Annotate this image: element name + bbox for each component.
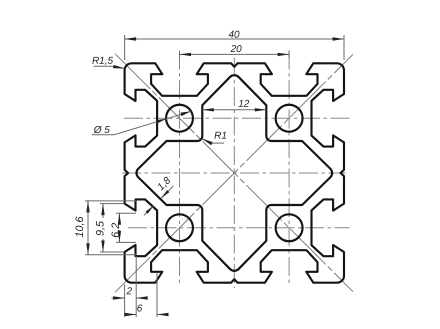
dimension 6 extension line c (156, 273, 158, 317)
dimension 10,6 extension lines (85, 200, 136, 202)
label Ø5 leader (92, 134, 115, 136)
slot axis centerline upper row (124, 117, 350, 119)
central cavity contour (136, 75, 332, 271)
horizontal centerline (122, 172, 346, 174)
slot axis centerline right column (288, 51, 290, 285)
svg-text:R1: R1 (214, 131, 227, 142)
dimension 9,5 extension lines (100, 203, 124, 205)
dimension 6,2 extension lines (116, 212, 136, 214)
svg-text:Ø 5: Ø 5 (93, 125, 111, 136)
slot axis centerline lower row (128, 227, 350, 229)
profile outer contour with 8 T-slots (125, 63, 344, 282)
hole Ø5 bottom-right (276, 214, 303, 241)
svg-text:9,5: 9,5 (94, 220, 106, 236)
dimension 12 line (202, 109, 266, 111)
svg-text:10,6: 10,6 (74, 216, 86, 237)
label R1 leader (211, 142, 224, 144)
dimension 2/6 extension line a (124, 285, 126, 318)
dimension 2/6 extension line b (135, 256, 137, 317)
dimension 40 extension line right (343, 35, 345, 60)
hole Ø5 bottom-left (166, 214, 193, 241)
dimension 20 extension ticks (179, 51, 181, 58)
dimension 6,2 line (118, 213, 120, 220)
dimension 40 line (125, 38, 344, 40)
hole Ø5 top-left (166, 105, 193, 132)
diagonal centerline TL-BR (115, 54, 353, 292)
svg-text:12: 12 (238, 99, 250, 110)
label R1,5 leader (94, 65, 112, 67)
svg-text:40: 40 (228, 30, 240, 41)
svg-text:2: 2 (126, 286, 133, 297)
dimension 6 line (126, 314, 137, 316)
svg-text:6: 6 (137, 303, 143, 314)
svg-text:R1,5: R1,5 (92, 56, 114, 67)
dimension 10,6 line (87, 201, 89, 255)
vertical centerline (233, 58, 235, 289)
dimension 9,5 line (102, 204, 104, 218)
dimension 2 line (112, 297, 125, 299)
diagonal centerline BL-TR (115, 54, 353, 292)
hole Ø5 top-right (276, 105, 303, 132)
svg-text:6,2: 6,2 (110, 223, 122, 238)
slot axis centerline left column (179, 51, 181, 285)
dimension 20 line (180, 53, 290, 55)
svg-text:20: 20 (230, 44, 243, 55)
dimension 40 extension line left (124, 35, 126, 60)
dimension 1,8 arrows (161, 186, 173, 198)
